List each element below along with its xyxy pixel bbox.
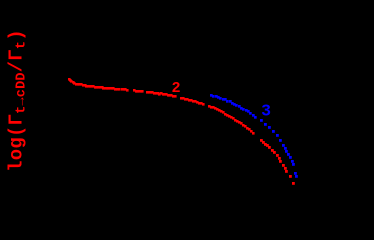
red curve (dotted), series 2	[68, 78, 295, 185]
svg-text:3: 3	[261, 102, 271, 121]
svg-text:2: 2	[172, 79, 181, 97]
blue curve (dotted), series 3	[210, 94, 298, 178]
y-axis label: log(Gamma_t->cDD / Gamma_t), red, rotated	[6, 29, 30, 172]
